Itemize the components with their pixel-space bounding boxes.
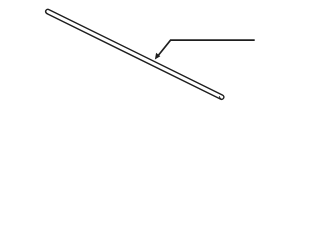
rod (thin capsule bar) [48,12,222,98]
arrowhead [155,53,160,60]
rod end-face arc (bottom tip) [219,96,222,99]
leader line [158,40,255,56]
rod end-face arc (top tip) [45,11,48,14]
